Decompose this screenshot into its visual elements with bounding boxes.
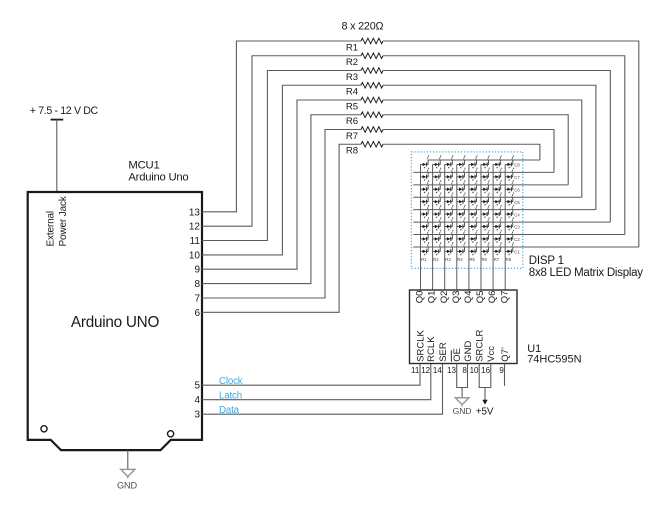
MCU1 Arduino Uno body <box>28 192 202 450</box>
svg-text:RCLK: RCLK <box>426 336 437 362</box>
svg-text:SER: SER <box>438 342 449 362</box>
wire resistor R3 to matrix row C6 <box>383 71 610 223</box>
LED row C7 col R7 <box>493 168 502 181</box>
svg-text:GND: GND <box>117 480 137 490</box>
svg-text:C7: C7 <box>514 175 520 180</box>
svg-text:11: 11 <box>190 236 201 247</box>
wire resistor R2 to matrix row C7 <box>383 56 625 235</box>
wire MCU1 pin 13 to resistor R1 <box>202 41 361 212</box>
svg-text:R6: R6 <box>346 116 358 127</box>
wire MCU1 to ground <box>127 450 129 469</box>
LED row C2 col R4 <box>457 230 466 243</box>
svg-text:+ 7.5 - 12 V DC: + 7.5 - 12 V DC <box>30 105 99 117</box>
DISP1 8x8 LED matrix dotted border <box>411 152 523 268</box>
wire MCU1 pin 8 to resistor R6 <box>202 115 361 284</box>
wire MCU1 pin 12 to resistor R2 <box>202 56 361 226</box>
resistor R6 <box>361 112 383 118</box>
matrix column 5 wire to U1 pin Q4 <box>468 164 470 290</box>
svg-text:SRCLK: SRCLK <box>415 329 426 361</box>
LED row C5 col R2 <box>433 193 442 206</box>
net Latch: wire MCU1 pin 4 to U1 <box>202 364 431 400</box>
svg-text:4: 4 <box>194 395 200 406</box>
svg-text:R1: R1 <box>421 257 427 262</box>
wire resistor R1 to matrix row C8 <box>383 41 639 247</box>
svg-text:Q7’: Q7’ <box>500 347 511 362</box>
LED row C4 col R3 <box>445 205 454 218</box>
wire MCU1 pin 9 to resistor R5 <box>202 100 361 269</box>
LED row C7 col R3 <box>445 168 454 181</box>
matrix row net C2 <box>413 234 625 236</box>
LED row C2 col R8 <box>505 230 514 243</box>
LED row C7 col R4 <box>457 168 466 181</box>
matrix column 4 wire to U1 pin Q3 <box>456 164 458 290</box>
U1 pin 9 Q7' stub <box>504 364 506 386</box>
LED row C6 col R8 <box>505 180 514 193</box>
LED row C5 col R8 <box>505 193 514 206</box>
svg-text:R7: R7 <box>346 131 358 142</box>
svg-text:Q1: Q1 <box>427 291 438 304</box>
matrix column 2 wire to U1 pin Q1 <box>432 164 434 290</box>
LED row C7 col R5 <box>469 168 478 181</box>
LED row C4 col R1 <box>421 205 430 218</box>
matrix row net C5 <box>413 196 582 198</box>
resistor R4 <box>361 82 383 88</box>
LED row C6 col R7 <box>493 180 502 193</box>
svg-text:R2: R2 <box>346 57 358 68</box>
svg-text:74HC595N: 74HC595N <box>527 354 581 366</box>
svg-text:Q5: Q5 <box>475 291 486 304</box>
matrix column 1 wire to U1 pin Q0 <box>420 164 422 290</box>
svg-text:Q4: Q4 <box>463 291 474 304</box>
svg-text:Data: Data <box>219 405 240 416</box>
svg-text:GND: GND <box>463 341 474 362</box>
LED row C6 col R1 <box>421 180 430 193</box>
svg-text:9: 9 <box>194 265 200 276</box>
wire U1 pin 10 SRCLR + pin 16 Vcc to +5V <box>479 364 491 401</box>
svg-text:R4: R4 <box>346 87 359 98</box>
svg-text:12: 12 <box>189 222 201 233</box>
svg-text:Q6: Q6 <box>487 291 498 304</box>
LED row C6 col R4 <box>457 180 466 193</box>
matrix row net C7 <box>413 171 554 173</box>
LED row C1 col R7 <box>493 242 502 255</box>
matrix column 7 wire to U1 pin Q6 <box>492 164 494 290</box>
svg-text:8x8 LED Matrix Display: 8x8 LED Matrix Display <box>529 267 644 279</box>
svg-text:R8: R8 <box>346 146 358 157</box>
wire resistor R7 to matrix row C2 <box>383 130 554 173</box>
svg-text:7: 7 <box>194 294 200 305</box>
svg-text:Q7: Q7 <box>499 291 510 304</box>
svg-text:R1: R1 <box>346 42 358 53</box>
wire resistor R4 to matrix row C5 <box>383 85 596 209</box>
resistor R2 <box>361 53 383 59</box>
LED row C7 col R1 <box>421 168 430 181</box>
LED row C7 col R8 <box>505 168 514 181</box>
svg-text:C6: C6 <box>514 187 520 192</box>
svg-text:Q2: Q2 <box>439 291 450 304</box>
svg-text:6: 6 <box>194 308 200 319</box>
LED row C1 col R8 <box>505 242 514 255</box>
svg-text:13: 13 <box>189 207 201 218</box>
resistor R7 <box>361 127 383 133</box>
wire MCU1 pin 10 to resistor R4 <box>202 85 361 255</box>
LED row C4 col R5 <box>469 205 478 218</box>
ground symbol (MCU1) <box>121 469 135 478</box>
matrix row net C6 <box>413 184 568 186</box>
svg-text:3: 3 <box>194 410 200 421</box>
svg-text:Latch: Latch <box>219 391 242 402</box>
svg-text:C8: C8 <box>514 163 520 168</box>
LED row C8 col R4 <box>457 156 466 169</box>
LED row C4 col R8 <box>505 205 514 218</box>
wire resistor R6 to matrix row C3 <box>383 115 568 185</box>
svg-text:8: 8 <box>194 279 200 290</box>
svg-text:External: External <box>45 211 56 247</box>
LED row C8 col R5 <box>469 156 478 169</box>
svg-text:OE: OE <box>452 348 463 362</box>
LED row C8 col R3 <box>445 156 454 169</box>
OE active-low overline <box>450 350 452 362</box>
wire MCU1 pin 11 to resistor R3 <box>202 71 361 241</box>
matrix row net C4 <box>413 209 596 211</box>
supply +7.5-12V DC terminal bar <box>51 119 64 121</box>
svg-text:R5: R5 <box>346 101 358 112</box>
LED row C5 col R1 <box>421 193 430 206</box>
resistor R3 <box>361 68 383 74</box>
svg-text:Clock: Clock <box>219 376 243 387</box>
wire supply to MCU1 power jack <box>56 120 58 192</box>
svg-text:9: 9 <box>499 366 504 375</box>
LED row C1 col R4 <box>457 242 466 255</box>
LED row C4 col R7 <box>493 205 502 218</box>
mounting hole left <box>41 426 47 432</box>
svg-text:C2: C2 <box>514 237 520 242</box>
LED row C7 col R6 <box>481 168 490 181</box>
supply +5V arrow <box>482 400 487 405</box>
svg-text:10: 10 <box>470 366 479 375</box>
svg-text:GND: GND <box>453 406 472 416</box>
LED row C2 col R1 <box>421 230 430 243</box>
svg-text:C3: C3 <box>514 225 520 230</box>
wire MCU1 pin 7 to resistor R7 <box>202 130 361 299</box>
LED row C6 col R5 <box>469 180 478 193</box>
svg-text:C1: C1 <box>514 250 520 255</box>
svg-text:Arduino UNO: Arduino UNO <box>71 314 160 331</box>
svg-text:SRCLR: SRCLR <box>475 329 486 361</box>
LED row C8 col R2 <box>433 156 442 169</box>
svg-text:16: 16 <box>481 366 490 375</box>
resistor R1 <box>361 38 383 44</box>
svg-text:12: 12 <box>421 366 430 375</box>
LED row C5 col R7 <box>493 193 502 206</box>
svg-text:Q3: Q3 <box>451 291 462 304</box>
LED row C1 col R5 <box>469 242 478 255</box>
svg-text:5: 5 <box>194 381 200 392</box>
svg-text:R2: R2 <box>433 257 439 262</box>
matrix column 3 wire to U1 pin Q2 <box>444 164 446 290</box>
LED row C5 col R4 <box>457 193 466 206</box>
svg-text:Arduino Uno: Arduino Uno <box>128 171 188 183</box>
svg-text:14: 14 <box>433 366 442 375</box>
LED row C3 col R7 <box>493 218 502 231</box>
LED row C3 col R3 <box>445 218 454 231</box>
matrix row net C8 <box>428 159 540 161</box>
resistor R5 <box>361 97 383 103</box>
svg-text:+5V: +5V <box>476 406 494 417</box>
svg-text:R3: R3 <box>346 72 358 83</box>
svg-text:11: 11 <box>411 366 420 375</box>
LED row C8 col R8 <box>505 156 514 169</box>
net Data: wire MCU1 pin 3 to U1 <box>202 364 443 415</box>
svg-text:Q0: Q0 <box>415 291 426 304</box>
svg-text:R6: R6 <box>482 257 488 262</box>
LED row C4 col R4 <box>457 205 466 218</box>
LED row C6 col R3 <box>445 180 454 193</box>
svg-text:Power Jack: Power Jack <box>58 195 69 246</box>
svg-text:C4: C4 <box>514 212 520 217</box>
svg-text:R3: R3 <box>445 257 451 262</box>
LED row C8 col R7 <box>493 156 502 169</box>
LED row C3 col R2 <box>433 218 442 231</box>
LED row C1 col R6 <box>481 242 490 255</box>
svg-text:MCU1: MCU1 <box>128 160 159 172</box>
wire resistor R8 to matrix row C1 <box>383 144 540 160</box>
LED row C2 col R6 <box>481 230 490 243</box>
LED row C2 col R2 <box>433 230 442 243</box>
net Clock: wire MCU1 pin 5 to U1 <box>202 364 420 386</box>
svg-text:8 x 220Ω: 8 x 220Ω <box>342 21 384 33</box>
LED row C3 col R8 <box>505 218 514 231</box>
wire U1 pin 13 OE + pin 8 GND to ground <box>457 364 468 398</box>
LED row C8 col R1 <box>421 156 430 169</box>
LED row C8 col R6 <box>481 156 490 169</box>
svg-text:Vcc: Vcc <box>486 346 497 362</box>
ground symbol (U1) <box>455 398 469 407</box>
matrix column 6 wire to U1 pin Q5 <box>480 164 482 290</box>
LED row C2 col R7 <box>493 230 502 243</box>
LED row C3 col R6 <box>481 218 490 231</box>
resistor R8 <box>361 141 383 147</box>
svg-text:DISP 1: DISP 1 <box>529 255 564 267</box>
LED row C5 col R5 <box>469 193 478 206</box>
LED row C5 col R6 <box>481 193 490 206</box>
svg-text:C5: C5 <box>514 200 520 205</box>
LED row C3 col R1 <box>421 218 430 231</box>
svg-text:R8: R8 <box>506 257 512 262</box>
LED row C4 col R6 <box>481 205 490 218</box>
LED row C3 col R5 <box>469 218 478 231</box>
svg-text:10: 10 <box>189 250 201 261</box>
U1 74HC595N body <box>410 290 518 364</box>
LED row C7 col R2 <box>433 168 442 181</box>
svg-text:R7: R7 <box>494 257 500 262</box>
LED row C4 col R2 <box>433 205 442 218</box>
matrix row net C3 <box>413 221 610 223</box>
LED row C2 col R3 <box>445 230 454 243</box>
mounting hole right <box>168 431 174 437</box>
LED row C1 col R1 <box>421 242 430 255</box>
LED row C3 col R4 <box>457 218 466 231</box>
LED row C6 col R6 <box>481 180 490 193</box>
wire resistor R5 to matrix row C4 <box>383 100 582 197</box>
matrix column 8 wire to U1 pin Q7 <box>504 164 506 290</box>
LED row C5 col R3 <box>445 193 454 206</box>
svg-text:13: 13 <box>447 366 456 375</box>
wire MCU1 pin 6 to resistor R8 <box>202 144 361 312</box>
LED row C2 col R5 <box>469 230 478 243</box>
LED row C1 col R3 <box>445 242 454 255</box>
svg-text:R5: R5 <box>470 257 476 262</box>
svg-text:8: 8 <box>462 366 467 375</box>
svg-text:R4: R4 <box>457 257 463 262</box>
LED row C1 col R2 <box>433 242 442 255</box>
LED row C6 col R2 <box>433 180 442 193</box>
matrix row net C1 <box>413 246 639 248</box>
